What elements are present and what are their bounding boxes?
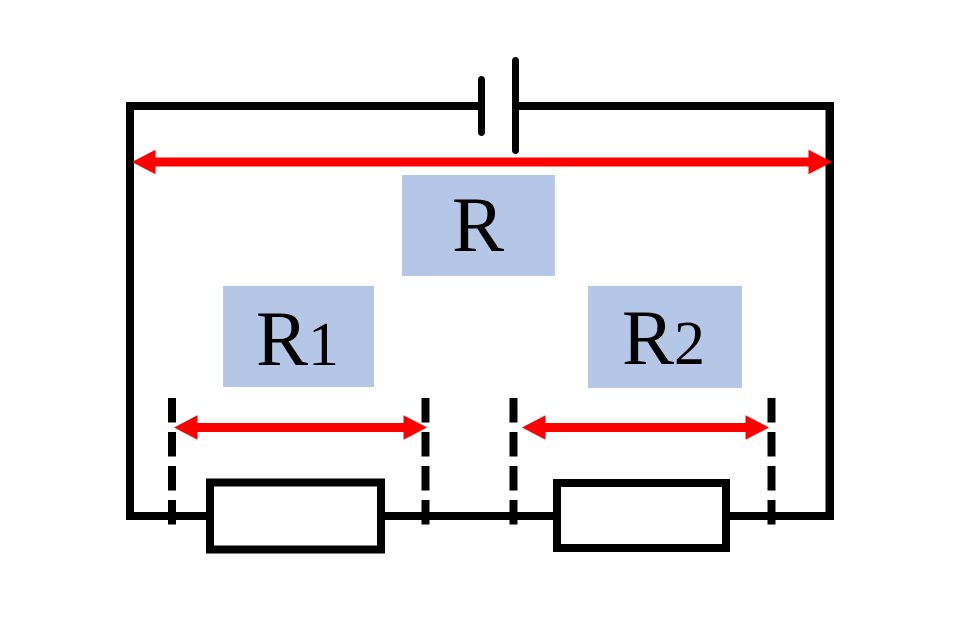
label box R (total resistance) [402,175,555,276]
wire: right vertical side of loop [826,102,835,520]
dashed extent line 4 (right of R2) [768,398,776,525]
wire: left vertical side of loop [126,102,134,520]
dashed extent line 3 (left of R2) [510,398,518,525]
resistor R1 (rectangle body) [210,483,381,550]
wire: bottom, left segment (left side to R1) [126,512,210,520]
label box R1 [223,286,374,387]
dimension arrow for R (full width, double headed, red) [132,150,832,174]
dimension arrow for R1 (double headed, red) [174,415,427,439]
label box R2 [588,286,742,388]
wire: top, right segment (from battery positive plate) [515,102,834,110]
wire: top, left segment (to battery negative plate) [126,102,479,110]
resistor R2 (rectangle body) [557,483,726,548]
battery BT1: short plate (negative) [478,76,485,136]
wire: bottom, middle segment (R1 to R2) [381,512,557,520]
dashed extent line 1 (left of R1) [168,398,176,525]
dimension arrow for R2 (double headed, red) [522,415,769,439]
svg-text:R: R [452,181,504,268]
battery BT1: tall plate (positive) [512,57,519,154]
dashed extent line 2 (right of R1) [422,398,430,525]
wire: bottom, right segment (R2 to right side) [726,512,834,520]
